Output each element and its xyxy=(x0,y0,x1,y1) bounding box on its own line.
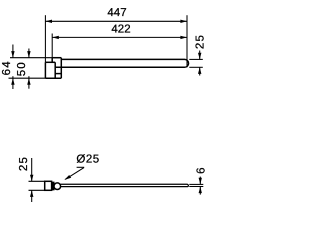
svg-text:25: 25 xyxy=(194,34,206,49)
svg-text:Ø25: Ø25 xyxy=(76,153,99,165)
svg-text:447: 447 xyxy=(107,7,126,19)
svg-text:25: 25 xyxy=(18,156,30,171)
svg-text:6: 6 xyxy=(195,166,207,174)
svg-text:64: 64 xyxy=(1,60,13,75)
svg-text:50: 50 xyxy=(16,61,28,76)
svg-text:422: 422 xyxy=(111,24,130,36)
